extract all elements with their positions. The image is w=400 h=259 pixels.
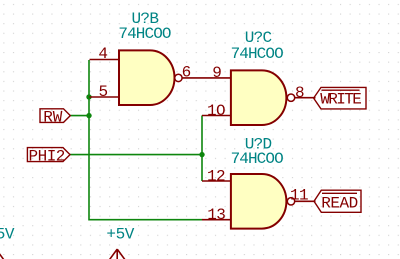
svg-text:RW: RW bbox=[43, 109, 63, 127]
svg-text:+5V: +5V bbox=[106, 226, 134, 244]
svg-text:PHI2: PHI2 bbox=[28, 148, 64, 166]
svg-text:WRITE: WRITE bbox=[320, 91, 361, 109]
svg-text:1O: 1O bbox=[207, 102, 225, 120]
svg-text:4: 4 bbox=[98, 45, 107, 63]
svg-text:13: 13 bbox=[207, 206, 225, 224]
svg-text:+5V: +5V bbox=[0, 226, 15, 244]
svg-text:74HCOO: 74HCOO bbox=[118, 25, 171, 43]
svg-text:9: 9 bbox=[212, 64, 221, 82]
svg-text:6: 6 bbox=[182, 63, 191, 81]
svg-text:74HCOO: 74HCOO bbox=[231, 150, 284, 168]
svg-text:11: 11 bbox=[290, 186, 308, 204]
svg-text:12: 12 bbox=[207, 167, 225, 185]
svg-text:8: 8 bbox=[295, 84, 304, 102]
svg-text:READ: READ bbox=[321, 195, 357, 213]
svg-text:74HCOO: 74HCOO bbox=[231, 45, 284, 63]
svg-text:5: 5 bbox=[99, 83, 108, 101]
